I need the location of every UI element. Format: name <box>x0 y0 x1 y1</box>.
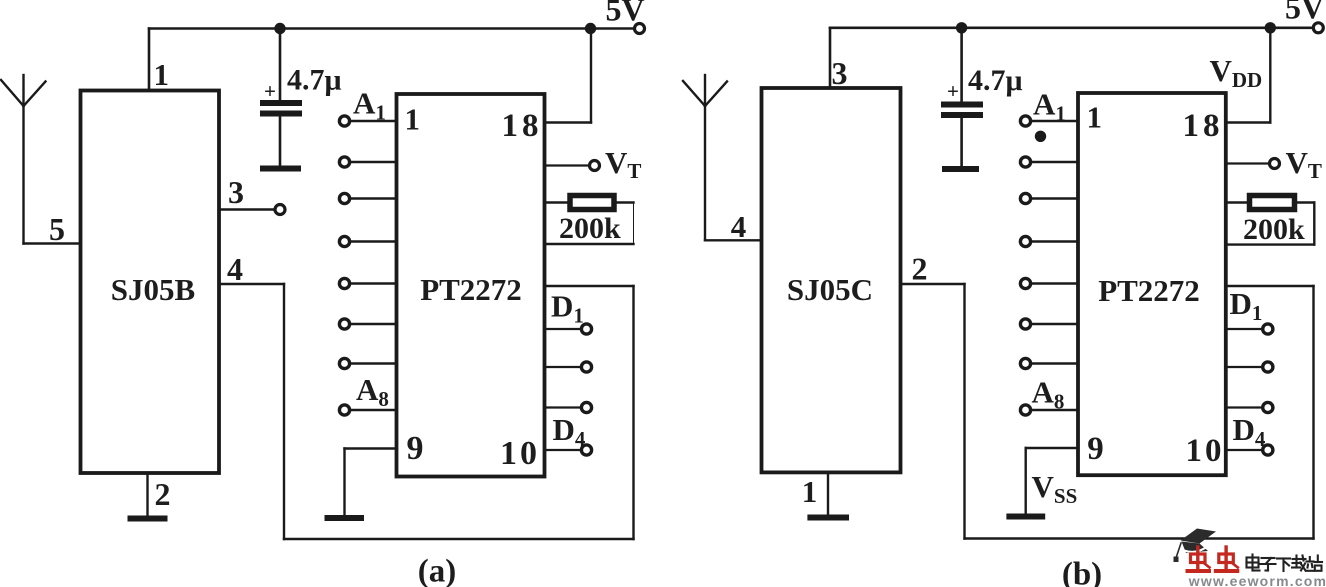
svg-text:1: 1 <box>1087 100 1103 135</box>
wire pin 18 to 5V rail (b) <box>1226 28 1271 123</box>
address pins A1..A8 (b) <box>1031 121 1078 410</box>
data pins D1..D4 (a) <box>545 329 582 450</box>
antenna E2 <box>683 75 727 240</box>
terminal pin 3 <box>275 205 285 215</box>
svg-text:1: 1 <box>154 57 170 92</box>
svg-text:1: 1 <box>802 474 818 509</box>
capacitor C2 4.7u <box>944 28 980 166</box>
capacitor C1 4.7u <box>263 29 299 167</box>
wire SJ05B pin 4 to bottom loop <box>219 284 634 539</box>
svg-text:A8: A8 <box>1032 375 1065 414</box>
svg-text:10: 10 <box>1186 433 1225 469</box>
wire pin 1 riser to 5V rail <box>148 29 151 91</box>
svg-text:VSS: VSS <box>1032 469 1078 508</box>
svg-text:PT2272: PT2272 <box>420 272 522 307</box>
junction dot at capacitor (b) <box>956 22 967 33</box>
svg-text:(a): (a) <box>418 554 456 587</box>
wire antenna to SJ05B pin 5 <box>24 242 81 244</box>
svg-text:4: 4 <box>731 209 747 244</box>
ground under SJ05B <box>131 516 165 522</box>
wire 5V rail (a) <box>149 27 634 30</box>
svg-text:18: 18 <box>1183 108 1224 144</box>
junction dot at capacitor <box>274 23 285 34</box>
svg-text:www.eeworm.com: www.eeworm.com <box>1188 573 1326 587</box>
svg-text:5V: 5V <box>1285 0 1324 26</box>
terminal 5V (b) <box>1313 23 1323 33</box>
terminal 5V (a) <box>635 24 645 34</box>
resistor R2 200k (b) <box>1226 196 1315 245</box>
antenna E1 <box>1 75 46 244</box>
wire SJ05C pin 2 to bottom loop <box>901 284 1314 539</box>
address pins A1..A8 (a) <box>350 121 397 410</box>
svg-text:10: 10 <box>500 435 540 472</box>
svg-text:9: 9 <box>1087 431 1104 467</box>
SJ05B pin 3 stub <box>219 208 275 210</box>
junction dot at pin 18 riser (b) <box>1265 22 1276 33</box>
svg-text:200k: 200k <box>559 212 621 245</box>
IC U2 PT2272 (a) <box>397 94 545 477</box>
svg-text:+: + <box>264 79 276 103</box>
wire SJ05B pin 2 to ground <box>146 473 148 516</box>
ground at pin 9 (a) <box>328 515 362 521</box>
svg-text:2: 2 <box>912 251 928 287</box>
svg-text:3: 3 <box>832 55 848 91</box>
wire 5V rail (b) <box>830 26 1313 29</box>
svg-text:+: + <box>947 79 959 103</box>
watermark chongchong character 2 <box>1216 547 1238 571</box>
wire pin 9 to ground (a) <box>345 449 397 516</box>
ground bar under C2 <box>945 166 976 172</box>
wire pin 9 to ground (b) <box>1026 448 1078 514</box>
resistor R1 200k (a) <box>545 196 634 245</box>
svg-text:D4: D4 <box>1233 412 1266 451</box>
terminal VT (b) <box>1270 159 1280 169</box>
svg-text:200k: 200k <box>1243 213 1305 246</box>
watermark site name characters <box>1247 555 1323 572</box>
svg-text:VDD: VDD <box>1210 53 1263 92</box>
svg-text:5V: 5V <box>605 0 644 28</box>
IC U4 PT2272 (b) <box>1078 93 1226 475</box>
wire SJ05C pin 1 to ground <box>827 472 829 515</box>
svg-text:A1: A1 <box>1033 87 1066 126</box>
svg-text:VT: VT <box>1286 145 1322 183</box>
svg-text:1: 1 <box>405 102 421 137</box>
svg-text:3: 3 <box>228 174 244 210</box>
svg-text:VT: VT <box>605 145 641 183</box>
svg-text:A8: A8 <box>356 372 389 411</box>
svg-text:5: 5 <box>49 211 65 247</box>
ground at pin 9 (b) <box>1009 514 1042 520</box>
IC U1 SJ05B <box>81 91 220 474</box>
wire antenna to SJ05C pin 4 <box>705 239 762 241</box>
svg-text:4.7μ: 4.7μ <box>287 64 342 97</box>
wire VT output (b) <box>1226 162 1269 164</box>
svg-text:SJ05C: SJ05C <box>787 272 873 307</box>
wire VT output (a) <box>545 164 590 166</box>
svg-text:PT2272: PT2272 <box>1098 273 1200 308</box>
svg-text:2: 2 <box>155 476 171 512</box>
svg-text:D1: D1 <box>1230 286 1263 325</box>
ground under SJ05C <box>810 515 846 521</box>
wire pin 18 to 5V rail (a) <box>545 29 592 123</box>
watermark chongchong character 1 <box>1188 547 1210 571</box>
wire pin 3 riser to 5V rail (b) <box>829 28 832 88</box>
svg-text:SJ05B: SJ05B <box>111 272 195 307</box>
svg-text:(b): (b) <box>1062 557 1102 587</box>
junction dot at pin 18 riser <box>585 23 596 34</box>
terminal VT (a) <box>590 161 600 171</box>
svg-text:9: 9 <box>407 430 424 467</box>
svg-text:4: 4 <box>227 251 243 287</box>
svg-text:A1: A1 <box>353 86 386 125</box>
data pins D1..D4 (b) <box>1226 329 1262 450</box>
IC U3 SJ05C <box>762 88 901 472</box>
svg-text:D1: D1 <box>551 289 584 328</box>
watermark graduation cap <box>1174 529 1217 563</box>
code dot under A1 (b) <box>1035 131 1046 142</box>
ground bar under C1 <box>263 166 298 172</box>
svg-text:4.7μ: 4.7μ <box>968 64 1023 97</box>
svg-text:D4: D4 <box>553 412 586 451</box>
svg-text:18: 18 <box>502 108 543 144</box>
